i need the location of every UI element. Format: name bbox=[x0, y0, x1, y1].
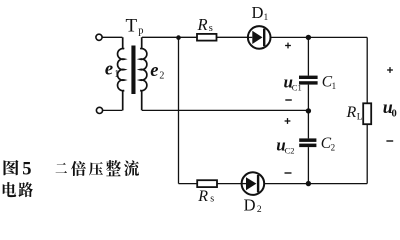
diode D1 circle bbox=[248, 26, 271, 49]
svg-text:C1: C1 bbox=[292, 83, 302, 93]
svg-text:s: s bbox=[209, 23, 213, 34]
diode D2 anode wire inside bbox=[242, 183, 246, 185]
resistor Rs (top) bbox=[197, 34, 217, 41]
wire: bottom Rs to D2 bbox=[217, 183, 242, 185]
svg-text:0: 0 bbox=[392, 108, 397, 119]
svg-text:1: 1 bbox=[332, 81, 337, 91]
svg-text:D: D bbox=[252, 3, 264, 22]
svg-text:2: 2 bbox=[331, 142, 336, 152]
capacitor C1 bottom plate bbox=[299, 81, 318, 84]
wire: Rs top to D1 bbox=[217, 36, 248, 38]
node C junction dot bbox=[306, 108, 311, 113]
wire: node A to Rs top bbox=[179, 36, 198, 38]
transformer core bbox=[131, 46, 135, 95]
wire: middle rail e2 bottom to node C bbox=[142, 109, 308, 111]
caption hanzi 路 bbox=[19, 182, 34, 197]
wire: D1 to node B bbox=[271, 36, 309, 38]
caption hanzi 图 bbox=[3, 160, 18, 175]
minus sign C1 bottom bbox=[285, 99, 292, 101]
caption hanzi 电 bbox=[3, 182, 16, 197]
svg-text:T: T bbox=[126, 15, 138, 36]
diode D1 cathode bar bbox=[263, 29, 265, 47]
svg-text:R: R bbox=[197, 188, 208, 205]
wire: bottom rail left segment bbox=[179, 183, 198, 185]
svg-text:D: D bbox=[244, 195, 256, 214]
resistor RL body bbox=[363, 103, 371, 124]
wire: right column top (corner to RL) bbox=[366, 37, 368, 103]
wire: primary bottom lead bbox=[103, 109, 123, 111]
transformer secondary winding e2 bbox=[140, 37, 147, 110]
wire: node C down to C2 bbox=[307, 111, 309, 138]
svg-text:R: R bbox=[346, 104, 357, 121]
wire: right column bottom (RL to bottom rail) bbox=[366, 124, 368, 183]
svg-text:R: R bbox=[197, 15, 208, 34]
diode D1 triangle bbox=[252, 31, 262, 44]
caption hanzi 流 bbox=[124, 160, 139, 176]
wire: C2 bottom to node D bbox=[307, 147, 309, 184]
node D junction dot bbox=[306, 181, 311, 186]
capacitor C2 bottom plate bbox=[299, 144, 316, 148]
wire: node B to top right corner bbox=[308, 36, 367, 38]
node B junction dot bbox=[306, 35, 311, 40]
svg-text:p: p bbox=[138, 26, 143, 37]
plus sign C2 top bbox=[285, 118, 291, 124]
svg-text:1: 1 bbox=[114, 69, 119, 80]
minus sign C2 bottom bbox=[285, 172, 292, 174]
caption hanzi 压 bbox=[89, 162, 103, 176]
transformer T primary terminal (top) bbox=[96, 34, 102, 40]
wire: node D to bottom right corner bbox=[308, 183, 367, 185]
svg-text:e: e bbox=[105, 59, 113, 79]
wire: C1 bottom to node C bbox=[307, 85, 309, 111]
caption hanzi 倍 bbox=[71, 161, 86, 176]
wire: primary top lead bbox=[102, 36, 122, 38]
plus sign u0 top bbox=[387, 67, 393, 73]
diode D2 triangle bbox=[246, 177, 256, 190]
plus sign C1 top bbox=[285, 43, 291, 49]
wire: node B down to C1 bbox=[307, 37, 309, 75]
diode D2 circle bbox=[242, 172, 265, 195]
svg-text:e: e bbox=[150, 61, 158, 81]
wire: D2 to node D bbox=[264, 183, 308, 185]
svg-text:5: 5 bbox=[22, 159, 31, 179]
svg-text:1: 1 bbox=[264, 13, 269, 23]
svg-text:2: 2 bbox=[257, 205, 262, 215]
svg-text:s: s bbox=[210, 194, 214, 205]
caption hanzi 整 bbox=[106, 160, 121, 176]
caption hanzi 二 bbox=[56, 163, 67, 173]
node A junction dot bbox=[176, 35, 181, 40]
capacitor C1 top plate bbox=[299, 76, 318, 79]
svg-text:2: 2 bbox=[159, 70, 164, 81]
svg-text:C2: C2 bbox=[285, 145, 295, 155]
wire: left column node A down to bottom rail bbox=[178, 37, 180, 183]
transformer primary winding e1 bbox=[118, 37, 125, 110]
wire: secondary top lead to node A bbox=[142, 36, 179, 38]
diode D2 cathode bar bbox=[257, 175, 259, 193]
capacitor C2 top plate bbox=[299, 138, 316, 142]
diode D1 anode wire inside bbox=[248, 36, 252, 38]
minus sign u0 bottom bbox=[386, 140, 393, 142]
transformer T primary terminal (bottom) bbox=[96, 107, 102, 113]
resistor Rs (bottom) bbox=[197, 180, 217, 187]
svg-text:L: L bbox=[357, 112, 363, 122]
